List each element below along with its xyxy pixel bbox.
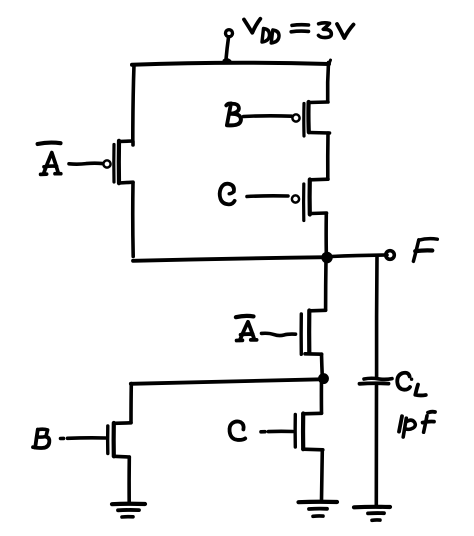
ground symbol (middle) [299,502,338,517]
wire gate lead A-bar PMOS [69,161,103,166]
wire M4 source to node N1 [320,354,324,377]
wire left branch lower [131,183,135,257]
wire gate lead A-bar NMOS [262,333,296,335]
label A-bar (left) [38,143,61,175]
label C (bottom) [230,421,246,440]
label VDD = 3V [244,19,354,43]
wire gate lead B PMOS [244,114,292,118]
wire gate lead C PMOS [247,194,288,198]
wire capacitor to ground [374,386,378,507]
wire gate lead C NMOS [261,429,293,433]
output terminal circle [386,251,395,260]
label C (top) [220,184,235,205]
label B (bottom) [33,429,49,448]
wire right branch from rail to M2 source [326,63,330,102]
wire M6 source to ground [320,450,324,501]
capacitor CL [360,378,393,384]
node N1 junction [319,374,328,383]
wire gate lead B NMOS [61,436,106,440]
wire M5 drain vertical [129,384,133,423]
transistor M4 NMOS input A-bar [301,310,325,354]
label B (top) [226,103,241,125]
transistor M3 PMOS input C [292,179,328,220]
wire M5 source to ground [127,457,131,504]
wire bottom of left branch to output node [133,257,327,261]
wire left branch upper [133,65,134,141]
label A-bar (middle) [236,316,257,341]
wire node N1 down to M6 drain [320,378,324,413]
label F [413,239,437,262]
ground symbol (right) [354,507,390,520]
transistor M5 NMOS input B [108,423,131,457]
wire output node to terminal [331,255,387,257]
ground symbol (left) [112,504,145,517]
wire output node down to M4 drain [324,260,328,311]
wire M2 drain to M3 source [326,133,330,179]
node F junction [322,253,332,263]
wire node N1 to M5 drain (bottom horizontal) [131,379,321,384]
power terminal VDD [224,30,233,61]
transistor M2 PMOS input B [292,102,329,136]
label CL [397,373,426,396]
transistor M1 PMOS input A-bar [103,141,133,183]
label 1pF [399,412,435,437]
wire M3 drain to output node [324,214,328,254]
transistor M6 NMOS input C [295,413,323,450]
wire top rail [132,63,329,65]
wire output to capacitor CL [375,257,379,377]
